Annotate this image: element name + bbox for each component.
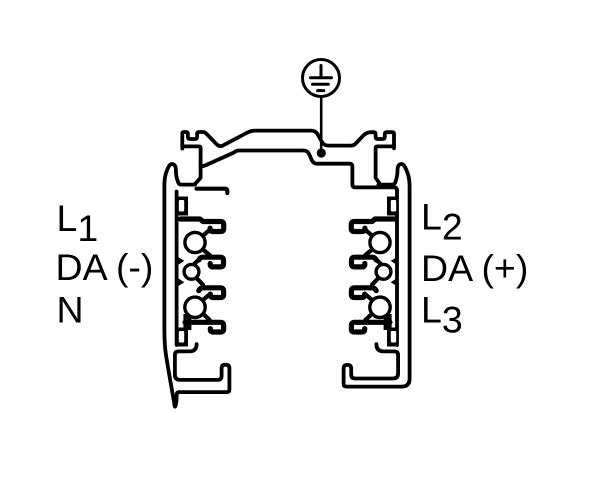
left ear underside and neck bbox=[182, 146, 200, 183]
left wall inner line bbox=[175, 192, 179, 346]
earth junction dot bbox=[317, 148, 326, 157]
earth lead wire bbox=[320, 97, 323, 151]
right wall inner line bbox=[395, 192, 399, 346]
bridge top edge with left ear notch, plateau, step, right ear notch bbox=[182, 131, 394, 149]
right comb with conductors L2, DA+, L3 (mirrored) bbox=[351, 197, 398, 347]
svg-text:DA (-): DA (-) bbox=[56, 246, 154, 288]
left ledge bbox=[197, 189, 228, 193]
cavity ceiling with step and pocket floor bbox=[201, 151, 397, 192]
earth symbol stem bbox=[320, 66, 323, 77]
svg-text:L3: L3 bbox=[421, 288, 463, 340]
earth symbol bar 2 bbox=[313, 83, 329, 86]
svg-text:L2: L2 bbox=[421, 196, 463, 248]
svg-text:DA (+): DA (+) bbox=[421, 247, 528, 289]
svg-text:L1: L1 bbox=[57, 197, 99, 249]
svg-text:N: N bbox=[57, 288, 84, 330]
left horn, outer wall and pointed tail, foot with lip bbox=[164, 164, 229, 407]
earth symbol bar 1 bbox=[311, 76, 332, 79]
earth symbol circle bbox=[303, 60, 340, 97]
right horn, outer wall, foot with lip bbox=[344, 164, 410, 387]
earth symbol bar 3 bbox=[318, 89, 324, 92]
right ear underside and neck bbox=[376, 146, 394, 183]
left comb with conductors L1, DA-, N bbox=[177, 197, 224, 347]
